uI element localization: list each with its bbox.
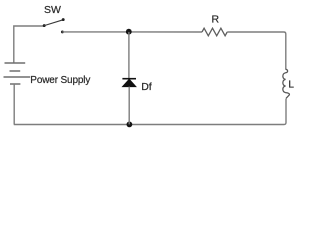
inductor L — [283, 69, 290, 98]
battery B1 (Power Supply) — [4, 63, 31, 84]
wire left rail top — [14, 26, 44, 63]
switch SW — [43, 18, 65, 33]
diode Df cathode bar — [122, 78, 136, 80]
wire battery bottom lead — [13, 84, 15, 125]
svg-text:L: L — [288, 80, 294, 91]
node bottom junction — [126, 122, 132, 128]
resistor R — [202, 28, 227, 36]
svg-text:Df: Df — [141, 81, 152, 93]
wire diode branch upper — [128, 32, 130, 79]
diode Df triangle — [123, 79, 136, 86]
wire top run (switch to resistor) — [62, 31, 202, 33]
svg-text:Power Supply: Power Supply — [30, 75, 90, 86]
node top junction — [126, 29, 132, 35]
svg-text:SW: SW — [44, 4, 61, 16]
wire right rail bottom — [14, 99, 286, 125]
wire resistor to top-right corner — [227, 32, 286, 70]
wire diode branch lower — [128, 87, 130, 125]
svg-text:R: R — [212, 13, 220, 25]
